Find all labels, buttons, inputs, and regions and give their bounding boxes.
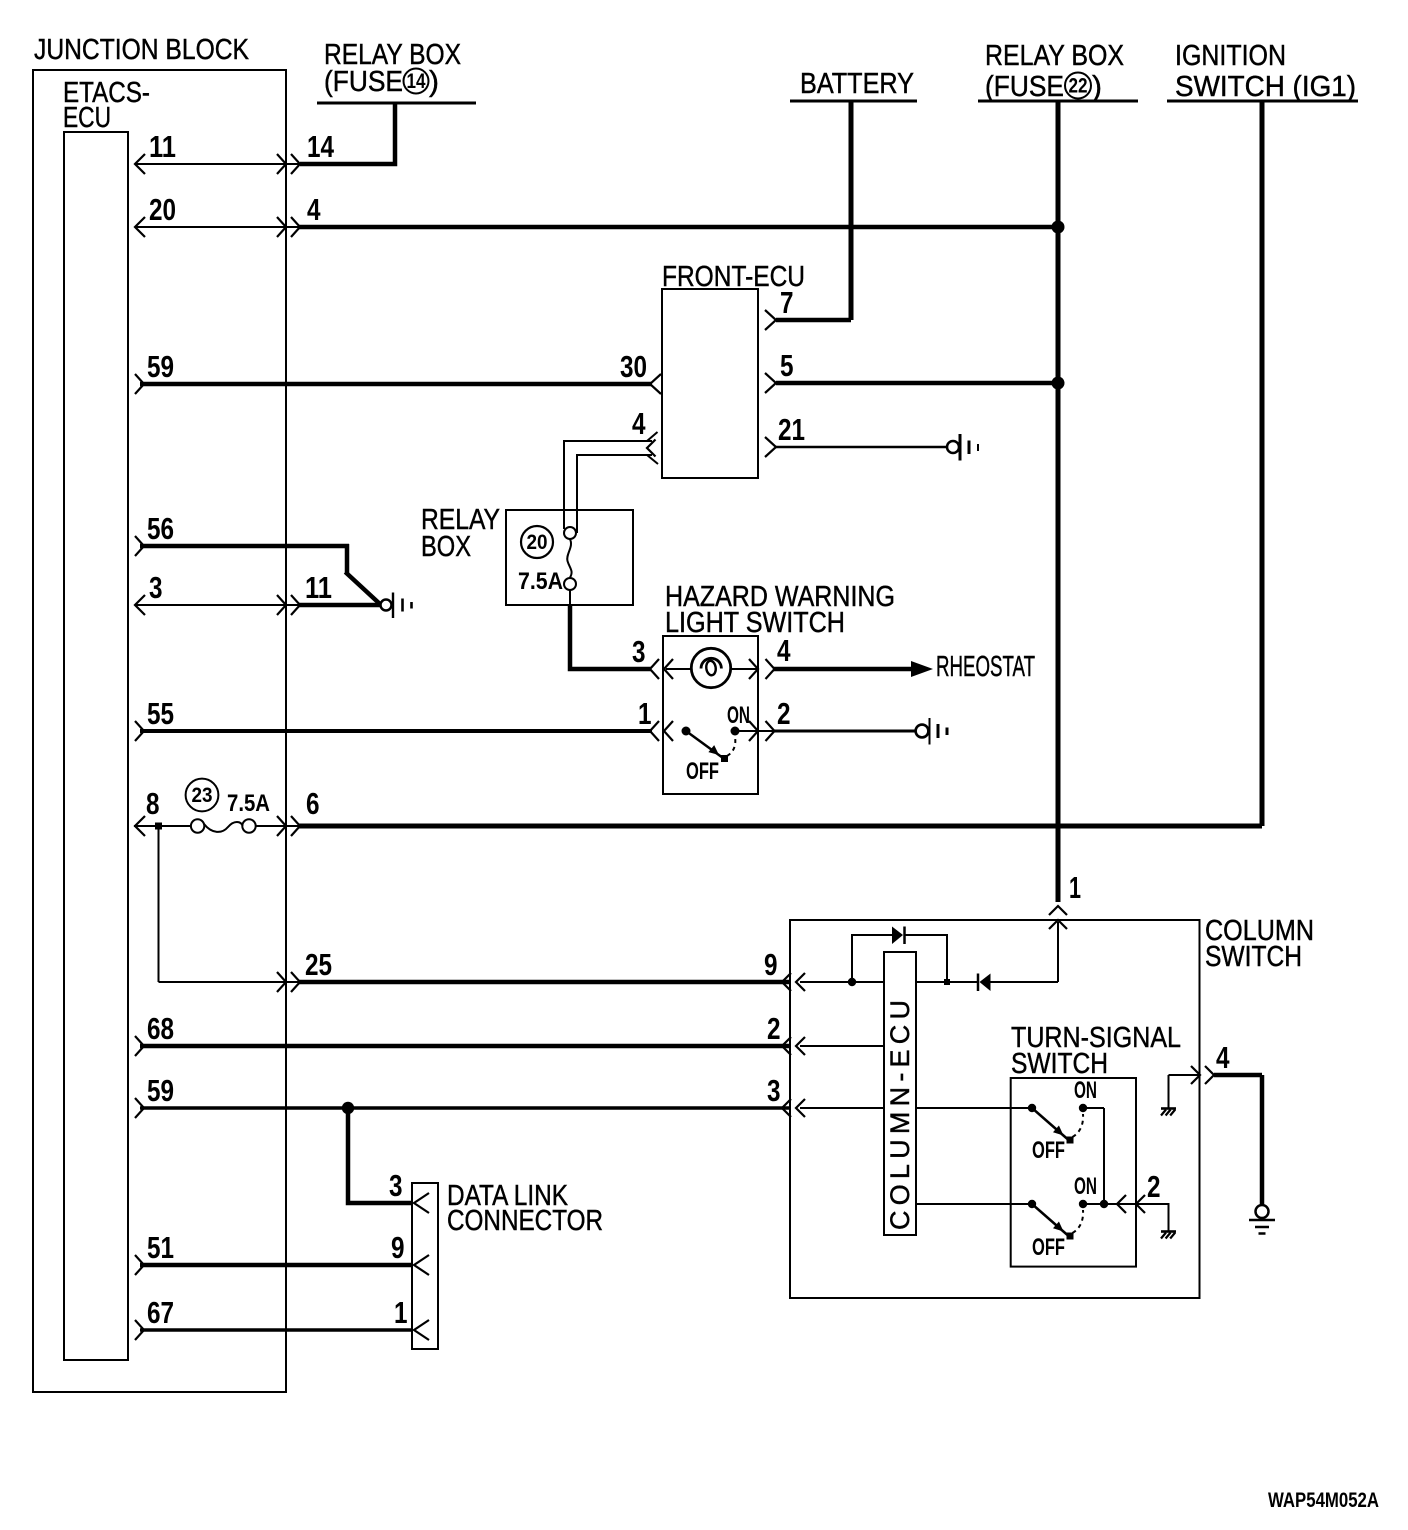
svg-text:WAP54M052A: WAP54M052A: [1268, 1489, 1379, 1512]
svg-text:5: 5: [780, 348, 794, 383]
svg-text:9: 9: [391, 1230, 405, 1265]
svg-text:11: 11: [149, 129, 176, 164]
svg-text:3: 3: [767, 1073, 781, 1108]
svg-text:9: 9: [764, 947, 778, 982]
svg-text:JUNCTION BLOCK: JUNCTION BLOCK: [34, 34, 250, 66]
svg-text:56: 56: [147, 511, 174, 546]
svg-text:2: 2: [777, 696, 791, 731]
svg-text:30: 30: [620, 349, 647, 384]
svg-text:): ): [429, 66, 439, 98]
svg-text:OFF: OFF: [1032, 1137, 1065, 1164]
svg-text:20: 20: [149, 192, 176, 227]
svg-text:23: 23: [192, 784, 213, 807]
svg-text:14: 14: [407, 70, 426, 93]
svg-text:55: 55: [147, 696, 174, 731]
svg-text:(FUSE: (FUSE: [324, 66, 403, 98]
svg-text:SWITCH: SWITCH: [1205, 941, 1302, 973]
svg-text:2: 2: [1147, 1169, 1161, 1204]
svg-text:(FUSE: (FUSE: [985, 71, 1064, 103]
svg-text:59: 59: [147, 349, 174, 384]
svg-text:14: 14: [307, 129, 335, 164]
svg-text:4: 4: [632, 406, 646, 441]
svg-text:SWITCH: SWITCH: [1011, 1048, 1108, 1080]
svg-text:ON: ON: [727, 702, 750, 729]
svg-text:): ): [1092, 71, 1102, 103]
svg-text:11: 11: [305, 570, 332, 605]
svg-text:OFF: OFF: [686, 758, 719, 785]
svg-text:ON: ON: [1074, 1077, 1097, 1104]
svg-text:22: 22: [1069, 75, 1088, 98]
svg-text:ON: ON: [1074, 1173, 1097, 1200]
svg-text:6: 6: [306, 786, 320, 821]
svg-text:IGNITION: IGNITION: [1175, 40, 1286, 72]
svg-text:7: 7: [780, 285, 794, 320]
svg-text:1: 1: [638, 696, 652, 731]
svg-text:4: 4: [777, 633, 791, 668]
svg-text:3: 3: [149, 570, 163, 605]
svg-text:7.5A: 7.5A: [227, 790, 270, 817]
svg-text:59: 59: [147, 1073, 174, 1108]
svg-text:COLUMN-ECU: COLUMN-ECU: [885, 1000, 915, 1230]
svg-text:RELAY BOX: RELAY BOX: [985, 40, 1124, 72]
svg-text:21: 21: [778, 412, 805, 447]
svg-text:3: 3: [389, 1168, 403, 1203]
svg-text:2: 2: [767, 1011, 781, 1046]
svg-text:8: 8: [146, 786, 160, 821]
svg-text:25: 25: [305, 947, 332, 982]
svg-text:1: 1: [394, 1295, 408, 1330]
svg-text:4: 4: [307, 192, 321, 227]
svg-text:RHEOSTAT: RHEOSTAT: [936, 651, 1035, 683]
svg-text:67: 67: [147, 1295, 174, 1330]
svg-text:4: 4: [1216, 1040, 1230, 1075]
svg-text:OFF: OFF: [1032, 1234, 1065, 1261]
svg-text:68: 68: [147, 1011, 174, 1046]
svg-text:7.5A: 7.5A: [518, 568, 563, 595]
svg-text:ECU: ECU: [63, 102, 111, 134]
svg-text:51: 51: [147, 1230, 174, 1265]
svg-text:BOX: BOX: [421, 531, 471, 563]
svg-text:20: 20: [527, 531, 548, 554]
svg-text:3: 3: [632, 634, 646, 669]
svg-text:LIGHT SWITCH: LIGHT SWITCH: [665, 607, 845, 639]
svg-text:SWITCH (IG1): SWITCH (IG1): [1175, 71, 1356, 103]
svg-text:CONNECTOR: CONNECTOR: [447, 1205, 603, 1237]
svg-text:BATTERY: BATTERY: [800, 68, 914, 100]
svg-text:1: 1: [1069, 870, 1081, 905]
